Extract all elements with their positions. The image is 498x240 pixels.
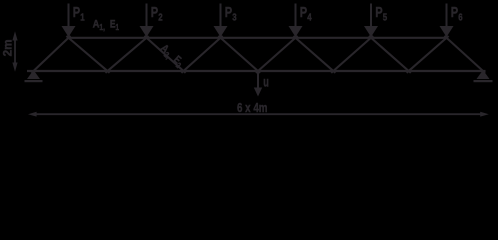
- svg-text:P: P: [375, 4, 382, 21]
- svg-text:P: P: [451, 4, 458, 21]
- svg-text:6: 6: [458, 12, 463, 23]
- svg-text:6 x 4m: 6 x 4m: [237, 100, 268, 115]
- svg-text:4: 4: [307, 12, 312, 23]
- svg-text:2: 2: [158, 12, 163, 23]
- load arrow P4: [289, 4, 303, 38]
- load arrow P2: [140, 4, 154, 38]
- svg-text:1: 1: [116, 23, 120, 32]
- label A2,E2 (diagonal, rotated): [157, 42, 186, 70]
- load arrow P5: [364, 4, 378, 38]
- svg-text:P: P: [151, 4, 158, 21]
- load arrow P6: [440, 4, 454, 38]
- svg-text:1: 1: [80, 12, 85, 23]
- top chord: [68, 37, 448, 39]
- truss diagram: [0, 0, 498, 124]
- svg-text:u: u: [263, 74, 269, 90]
- dimension 6 x 4m (horizontal, bottom): [28, 112, 489, 117]
- load arrow P1: [62, 4, 76, 38]
- svg-text:5: 5: [383, 12, 388, 23]
- svg-text:1,: 1,: [99, 23, 105, 32]
- left support (pin): [25, 70, 43, 82]
- web diagonals (Warren): [32, 36, 486, 73]
- right support (roller): [474, 70, 493, 82]
- bottom chord: [27, 70, 486, 72]
- label A1,E1 (top chord): [93, 18, 120, 32]
- svg-text:3: 3: [232, 12, 237, 23]
- svg-text:2m: 2m: [2, 39, 14, 56]
- displacement arrow u: [254, 71, 262, 97]
- svg-text:P: P: [73, 4, 80, 21]
- load arrow P3: [214, 4, 228, 38]
- svg-text:P: P: [300, 4, 307, 21]
- dimension 2m (vertical, left): [12, 31, 17, 72]
- svg-text:P: P: [225, 4, 232, 21]
